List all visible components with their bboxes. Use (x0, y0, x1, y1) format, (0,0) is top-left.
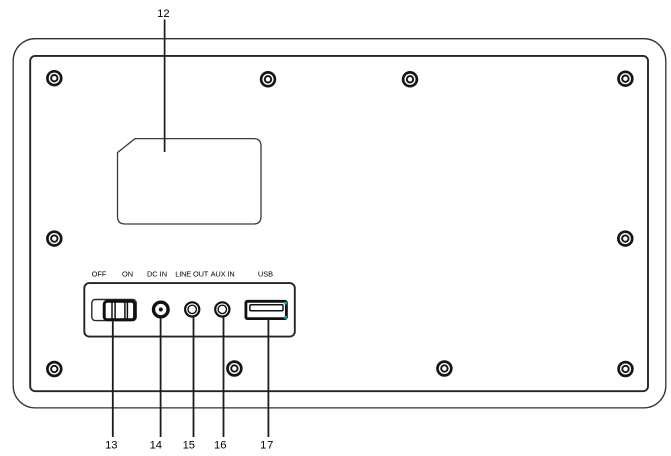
leader line 15 (193, 318, 195, 438)
callout 12 leader line (164, 20, 166, 153)
label plate (item 12) (118, 139, 262, 224)
svg-text:14: 14 (150, 439, 162, 451)
svg-text:USB: USB (258, 270, 273, 279)
USB port (246, 301, 287, 318)
screw top-right (619, 72, 633, 86)
svg-text:DC IN: DC IN (147, 270, 167, 279)
screw bottom-mid-right (438, 362, 452, 376)
LINE OUT jack (185, 302, 199, 316)
screw top-left (47, 71, 61, 85)
switch knob ridges (112, 303, 127, 319)
screw bottom-mid-left (228, 362, 242, 376)
DC IN jack (154, 302, 169, 317)
svg-text:13: 13 (105, 439, 117, 451)
svg-text:ON: ON (122, 270, 133, 279)
screw mid-right (618, 232, 632, 246)
device outer case (13, 39, 666, 408)
svg-text:17: 17 (260, 439, 274, 451)
screw bottom-right (619, 362, 633, 376)
screw top-mid-left (261, 72, 275, 86)
svg-text:OFF: OFF (92, 270, 107, 279)
leader line 14 (160, 319, 162, 438)
svg-text:AUX IN: AUX IN (211, 270, 235, 279)
connector panel (84, 283, 294, 337)
screw bottom-left (47, 362, 61, 376)
device inner face (30, 56, 648, 391)
svg-text:15: 15 (183, 439, 195, 451)
svg-text:12: 12 (157, 8, 169, 20)
leader line 13 (112, 321, 114, 437)
AUX IN jack (215, 302, 229, 316)
svg-text:LINE OUT: LINE OUT (175, 270, 209, 279)
leader line 16 (223, 318, 225, 438)
power switch outer frame (92, 300, 136, 321)
screw mid-left (47, 232, 61, 246)
power switch knob (104, 301, 134, 320)
leader line 17 (267, 319, 269, 437)
svg-text:16: 16 (214, 439, 226, 451)
screw top-mid-right (403, 72, 417, 86)
